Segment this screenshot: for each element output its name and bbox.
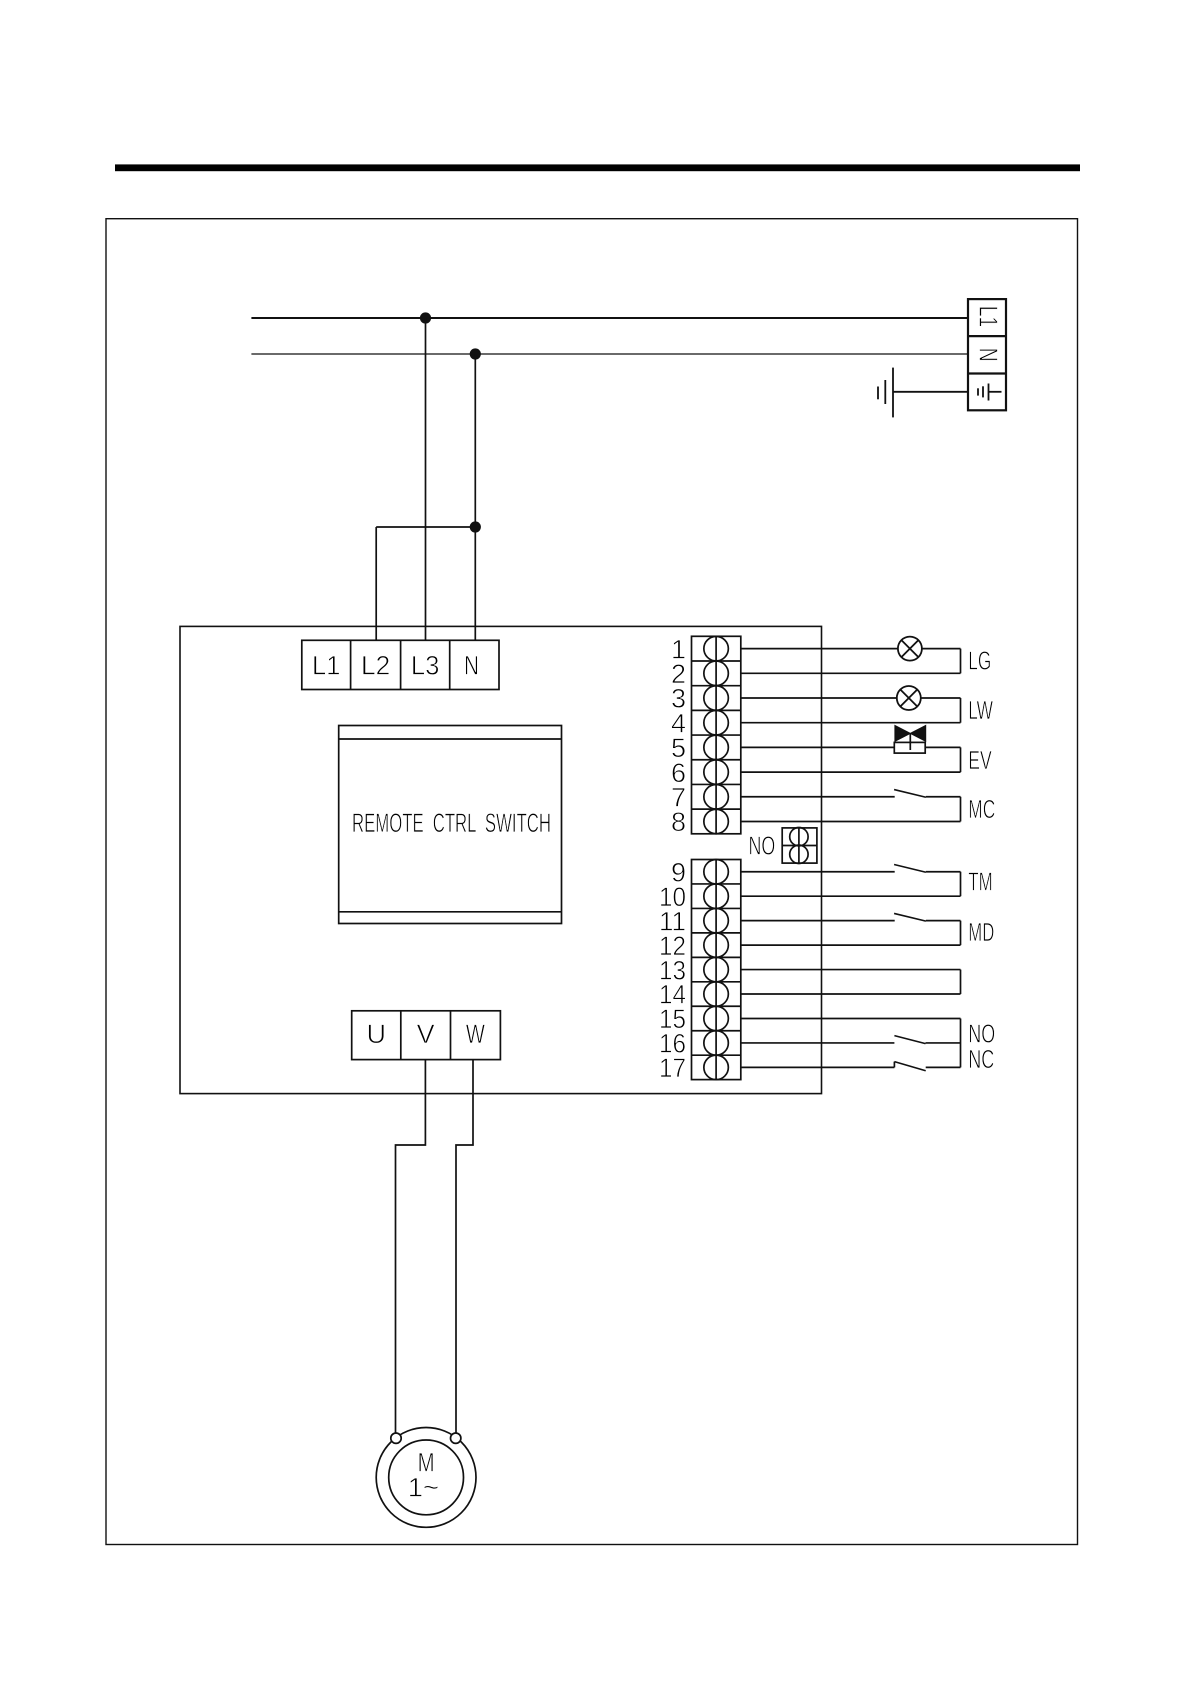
wire switch TM to rail: [926, 871, 961, 873]
node junction on L feed: [420, 312, 431, 323]
valve EV stem: [909, 733, 911, 750]
terminal block input L1 L2 L3 N: [302, 640, 499, 689]
wire MC return rail: [960, 797, 962, 822]
wire contact NO to rail: [926, 1042, 961, 1044]
svg-text:REMOTE CTRL SWITCH: REMOTE CTRL SWITCH: [352, 808, 551, 838]
lamp LW: [897, 686, 921, 710]
svg-text:EV: EV: [968, 745, 992, 775]
switch MC blade: [894, 790, 926, 798]
svg-text:V: V: [417, 1019, 435, 1049]
terminal strip TB2 (1-8) screw center line: [715, 636, 717, 834]
switch NO blade: [894, 1036, 925, 1044]
wire LW return rail: [960, 698, 962, 723]
wire drop to L3 terminal: [425, 318, 427, 640]
wire LG return rail: [960, 649, 962, 674]
wire link L2 horizontal: [376, 526, 475, 528]
svg-text:L1: L1: [973, 306, 1003, 328]
wire MD return rail: [960, 921, 962, 945]
switch MD blade: [894, 913, 926, 921]
wire pin15 common to rail: [741, 1017, 961, 1019]
wire V to motor: [396, 1060, 426, 1434]
diagram border frame: [106, 219, 1078, 1545]
wire rail to pin4: [741, 722, 961, 724]
terminal strip TB2 (1-8) screw circles: [704, 636, 729, 833]
wire contact NC to rail: [926, 1066, 961, 1068]
terminal block supply L1/N/PE: [968, 299, 1006, 410]
svg-text:MC: MC: [968, 794, 995, 824]
valve EV coil box: [894, 742, 925, 753]
wire rail to pin14: [741, 993, 961, 995]
svg-text:MD: MD: [968, 917, 994, 947]
svg-text:LG: LG: [968, 646, 991, 676]
wire pin13 to rail: [741, 969, 961, 971]
wire drop to N terminal: [474, 354, 476, 640]
wire TM return rail: [960, 872, 962, 896]
wire pin to switch MD: [741, 920, 895, 922]
svg-text:LW: LW: [968, 695, 993, 725]
switch NC step: [893, 1062, 895, 1068]
svg-text:N: N: [973, 348, 1003, 362]
wire live feed L: [251, 317, 968, 319]
remote control switch module U1: [339, 726, 562, 924]
title separator bar: [115, 164, 1080, 171]
wire rail to pin (TM return): [741, 895, 961, 897]
wire rail to pin (MC return): [741, 820, 961, 822]
svg-text:17: 17: [659, 1053, 686, 1083]
svg-text:N: N: [464, 651, 479, 681]
wire W to motor: [456, 1060, 473, 1434]
wire changeover rail: [960, 1018, 962, 1067]
wire pin1 to lamp LG: [741, 648, 898, 650]
switch TM blade: [894, 865, 926, 873]
wire drop to L2 terminal: [375, 527, 377, 640]
wire earth branch: [893, 391, 968, 393]
terminal block output U V W: [352, 1011, 501, 1060]
wire neutral feed N: [251, 353, 968, 355]
svg-text:NO: NO: [749, 831, 776, 861]
controller enclosure box: [180, 626, 822, 1093]
terminal strip TB3 (9-17) screw center line: [715, 860, 717, 1080]
wire pin5 to valve EV: [741, 746, 895, 748]
wire rail to pin6: [741, 771, 961, 773]
svg-text:L3: L3: [411, 651, 440, 681]
terminal strip TB3 (9-17) screw circles: [704, 859, 729, 1079]
wire valve EV to rail: [925, 746, 960, 748]
wire switch MD to rail: [926, 920, 961, 922]
lamp LG: [898, 637, 922, 661]
ground symbol PE: [878, 368, 893, 418]
svg-text:TM: TM: [968, 867, 993, 897]
node junction on N feed: [470, 348, 481, 359]
wire pin to switch TM: [741, 871, 895, 873]
svg-text:8: 8: [671, 807, 686, 837]
svg-text:L1: L1: [312, 651, 340, 681]
wire switch MC to rail: [926, 796, 961, 798]
motor M1 single phase: [376, 1428, 476, 1528]
switch NC blade: [894, 1062, 925, 1071]
wire rail to pin (MD return): [741, 944, 961, 946]
wire rail to pin2: [741, 672, 961, 674]
svg-text:1~: 1~: [408, 1473, 439, 1503]
terminal strip TB3 (9-17) dividers: [692, 884, 741, 1055]
wire EV return rail: [960, 747, 962, 772]
terminal strip TB2 (1-8) outline: [692, 636, 741, 834]
terminal strip TB2 (1-8) dividers: [692, 661, 741, 809]
svg-text:L2: L2: [361, 651, 390, 681]
terminal block NO auxiliary: [782, 828, 817, 864]
svg-text:W: W: [466, 1019, 485, 1049]
wire pin16 to contact NO: [741, 1042, 895, 1044]
valve EV bowtie: [895, 725, 926, 741]
svg-text:U: U: [366, 1019, 386, 1049]
wire 13-14 rail: [960, 970, 962, 994]
wire pin17 to contact NC: [741, 1066, 895, 1068]
pin numbers 1-17: [659, 634, 686, 1083]
wire pin to switch MC: [741, 796, 895, 798]
wire lamp LW to rail: [921, 697, 961, 699]
node junction L2 link: [470, 521, 481, 532]
terminal strip TB3 (9-17) outline: [692, 860, 741, 1080]
wire lamp LG to rail: [922, 648, 961, 650]
svg-text:NC: NC: [968, 1044, 994, 1074]
wire pin3 to lamp LW: [741, 697, 897, 699]
earth glyph in PE cell: [978, 384, 1002, 401]
